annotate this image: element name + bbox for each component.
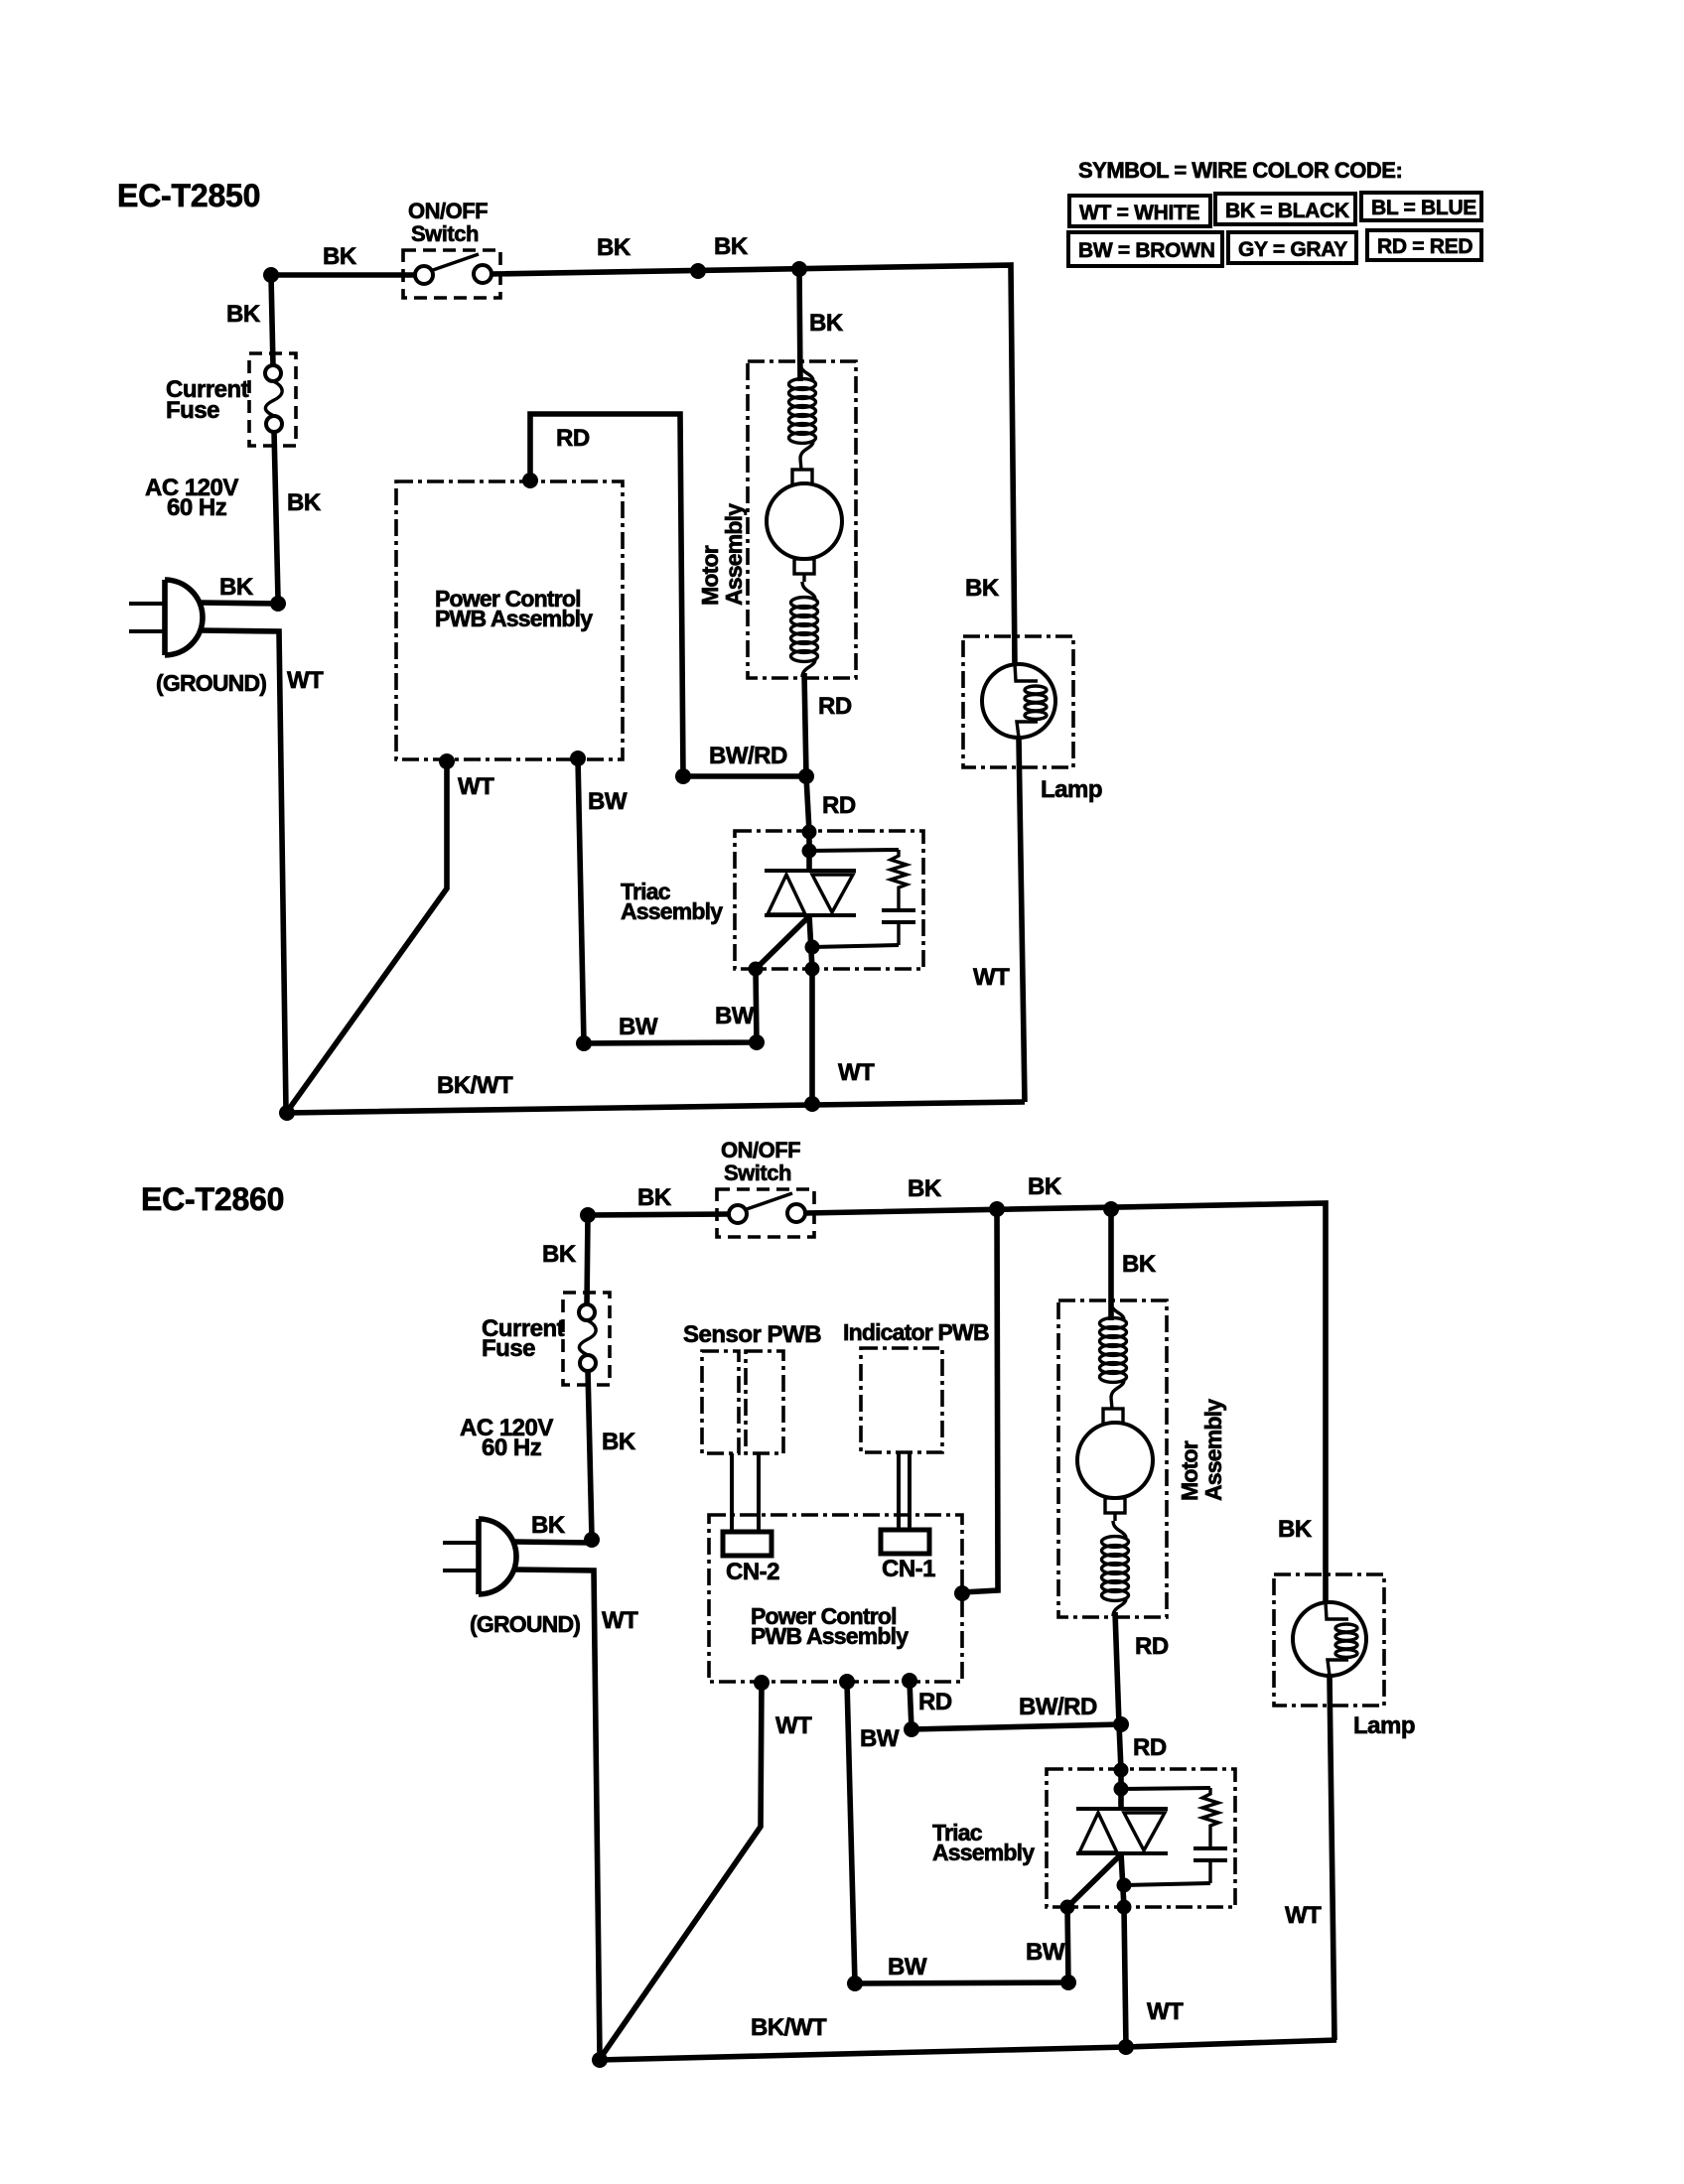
wire BK/WT: bottom rail bbox=[600, 2040, 1336, 2060]
legend box BL = BLUE bbox=[1361, 193, 1481, 220]
wire BW/RD: horizontal to motor lead bbox=[683, 773, 806, 779]
wire BK: plug to node bbox=[513, 1542, 592, 1543]
connector CN-1 bbox=[881, 1530, 929, 1554]
wire: indicator PWB leads to CN-1 bbox=[897, 1452, 901, 1531]
wire BW: PWB down bbox=[578, 758, 584, 1043]
svg-text:SYMBOL = WIRE COLOR CODE:: SYMBOL = WIRE COLOR CODE: bbox=[1078, 158, 1402, 183]
motor assembly M1 bbox=[748, 361, 856, 678]
svg-text:RD: RD bbox=[918, 1689, 952, 1715]
junction node BK step branch bbox=[989, 1201, 1005, 1217]
svg-text:BW: BW bbox=[588, 788, 628, 815]
current fuse F2 bbox=[563, 1293, 610, 1385]
svg-text:RD: RD bbox=[1133, 1734, 1167, 1761]
connector CN-2 bbox=[723, 1532, 772, 1556]
power control PWB assembly box bbox=[709, 1515, 962, 1682]
svg-text:(GROUND): (GROUND) bbox=[470, 1611, 580, 1637]
svg-text:BL = BLUE: BL = BLUE bbox=[1371, 197, 1476, 219]
svg-text:60 Hz: 60 Hz bbox=[482, 1434, 542, 1461]
svg-text:RD: RD bbox=[818, 693, 852, 720]
wire BW: PWB down bbox=[847, 1682, 855, 1983]
svg-text:BK: BK bbox=[1278, 1516, 1313, 1543]
wire BK: fuse down to plug node bbox=[588, 1370, 592, 1538]
wire BK/WT: bottom rail bbox=[287, 1102, 1025, 1113]
junction node BW gate bbox=[1060, 1975, 1076, 1990]
svg-text:BK: BK bbox=[908, 1175, 942, 1202]
wire BK: node down to fuse bbox=[271, 275, 273, 366]
svg-text:RD = RED: RD = RED bbox=[1377, 235, 1473, 258]
legend box BW = BROWN bbox=[1068, 232, 1222, 266]
wire WT: PWB to diagonal to bottom-left corner bbox=[287, 761, 447, 1112]
junction node motor branch bbox=[1103, 1201, 1119, 1217]
wire WT: plug down left side to bottom-left corner bbox=[514, 1570, 600, 2057]
junction node bottom-left corner bbox=[592, 2052, 608, 2068]
junction node BW gate bbox=[749, 1034, 765, 1050]
svg-text:BK: BK bbox=[809, 310, 844, 337]
svg-text:EC-T2860: EC-T2860 bbox=[141, 1181, 284, 1217]
junction node PWB RD bottom bbox=[902, 1673, 917, 1689]
svg-text:Indicator PWB: Indicator PWB bbox=[843, 1319, 989, 1345]
sensor PWB box right bbox=[746, 1351, 783, 1453]
junction node PWB RD top bbox=[522, 473, 538, 488]
svg-text:BK: BK bbox=[637, 1184, 672, 1211]
on/off switch S2 bbox=[717, 1189, 814, 1237]
junction node PWB WT bottom bbox=[754, 1675, 770, 1691]
svg-text:Fuse: Fuse bbox=[166, 397, 219, 424]
svg-text:BK: BK bbox=[965, 575, 1000, 602]
svg-text:BW = BROWN: BW = BROWN bbox=[1078, 239, 1215, 262]
legend box WT = WHITE bbox=[1069, 196, 1210, 226]
wire BK: rail node down into motor bbox=[1108, 1209, 1114, 1320]
wire WT: PWB to diagonal to bottom-left corner bbox=[600, 1683, 762, 2059]
svg-text:PWB Assembly: PWB Assembly bbox=[435, 606, 593, 631]
junction node BW corner left bbox=[847, 1976, 863, 1991]
svg-text:WT: WT bbox=[602, 1607, 638, 1634]
junction node bottom-left corner bbox=[279, 1105, 295, 1121]
junction node motor branch bbox=[791, 261, 807, 277]
junction node at fuse/switch bbox=[263, 267, 279, 283]
svg-text:BK: BK bbox=[323, 243, 357, 270]
wire: sensor PWB leads to CN-2 bbox=[730, 1453, 734, 1533]
wire WT: lamp to bottom rail right corner bbox=[1330, 1676, 1334, 2040]
junction node at fuse/switch bbox=[580, 1207, 596, 1223]
wire WT: plug down left side to bottom-left corner bbox=[201, 630, 286, 1110]
svg-text:WT: WT bbox=[1147, 1998, 1184, 2025]
legend box BK = BLACK bbox=[1215, 194, 1355, 224]
svg-text:ON/OFF: ON/OFF bbox=[408, 199, 488, 223]
junction node RD corner bbox=[904, 1721, 919, 1737]
power plug P1 bbox=[129, 580, 203, 655]
svg-text:BK/WT: BK/WT bbox=[437, 1072, 513, 1099]
svg-text:BK: BK bbox=[287, 489, 322, 516]
junction node BW/RD right bbox=[1113, 1716, 1129, 1732]
indicator PWB box bbox=[861, 1348, 942, 1452]
svg-text:BW/RD: BW/RD bbox=[709, 743, 787, 769]
svg-text:WT: WT bbox=[287, 667, 324, 694]
wire WT: triac down to bottom rail bbox=[809, 969, 815, 1105]
junction node BW/RD right bbox=[798, 768, 814, 784]
svg-text:PWB Assembly: PWB Assembly bbox=[751, 1623, 909, 1649]
lamp L1 bbox=[963, 636, 1073, 767]
svg-text:Assembly: Assembly bbox=[1200, 1399, 1226, 1501]
wire WT: lamp to bottom rail right corner bbox=[1019, 738, 1025, 1102]
svg-text:BW: BW bbox=[860, 1725, 900, 1752]
svg-text:BW: BW bbox=[619, 1014, 658, 1040]
svg-text:WT: WT bbox=[1285, 1902, 1322, 1929]
power control PWB assembly box bbox=[396, 481, 623, 759]
junction node WT bottom rail bbox=[804, 1096, 820, 1112]
svg-text:Assembly: Assembly bbox=[721, 503, 747, 606]
svg-text:BK/WT: BK/WT bbox=[751, 2014, 827, 2041]
legend box GY = GRAY bbox=[1228, 232, 1356, 263]
on/off switch S1 bbox=[403, 250, 500, 298]
svg-text:WT = WHITE: WT = WHITE bbox=[1079, 202, 1200, 224]
svg-text:BK: BK bbox=[1028, 1173, 1062, 1200]
svg-text:ON/OFF: ON/OFF bbox=[721, 1138, 800, 1162]
wire BK: plug to node bbox=[200, 603, 278, 604]
svg-text:CN-1: CN-1 bbox=[882, 1556, 935, 1582]
svg-text:60 Hz: 60 Hz bbox=[167, 494, 227, 521]
wire BK: switch to top-right corner, down to lamp bbox=[491, 265, 1015, 664]
svg-text:BW/RD: BW/RD bbox=[1019, 1694, 1097, 1720]
lamp L2 bbox=[1274, 1574, 1384, 1706]
junction node PWB WT bottom bbox=[439, 753, 455, 769]
svg-text:(GROUND): (GROUND) bbox=[156, 670, 266, 696]
junction node plug BK bbox=[584, 1532, 600, 1548]
wire BK: left node to switch bbox=[588, 1214, 729, 1215]
svg-text:Assembly: Assembly bbox=[932, 1840, 1035, 1865]
wire BW: horizontal to triac gate bbox=[584, 969, 757, 1043]
sensor PWB box left bbox=[702, 1351, 739, 1453]
wire BW/RD: horizontal to motor lead bbox=[912, 1724, 1121, 1729]
wire BK: switch node down into motor bbox=[799, 269, 800, 381]
wire RD: motor down through BW/RD node to triac bbox=[804, 673, 809, 832]
svg-text:BK: BK bbox=[542, 1241, 577, 1268]
junction node BW corner left bbox=[576, 1035, 592, 1051]
triac assembly Q1 bbox=[735, 825, 923, 977]
wire BK: switch to top-right corner, down to lamp bbox=[805, 1203, 1326, 1602]
wire BK: rail node down, step left to PWB right edge bbox=[962, 1209, 998, 1592]
svg-text:Lamp: Lamp bbox=[1353, 1712, 1415, 1739]
svg-text:RD: RD bbox=[822, 792, 856, 819]
svg-text:BK: BK bbox=[714, 233, 749, 260]
svg-text:EC-T2850: EC-T2850 bbox=[117, 178, 260, 213]
junction node PWB right edge bbox=[954, 1585, 970, 1601]
wire BK: fuse down to plug node bbox=[274, 431, 278, 599]
wire BW: horizontal to triac gate bbox=[855, 1907, 1068, 1983]
junction node WT bottom rail bbox=[1118, 2039, 1134, 2055]
svg-text:BK: BK bbox=[597, 234, 631, 261]
svg-text:RD: RD bbox=[1135, 1633, 1169, 1660]
junction node plug BK bbox=[270, 596, 286, 612]
svg-text:CN-2: CN-2 bbox=[726, 1559, 779, 1585]
svg-text:WT: WT bbox=[973, 964, 1010, 991]
triac assembly Q2 bbox=[1047, 1763, 1235, 1915]
svg-text:GY = GRAY: GY = GRAY bbox=[1238, 238, 1347, 261]
svg-text:BK: BK bbox=[602, 1429, 636, 1455]
wire BK: node down to fuse bbox=[587, 1215, 588, 1305]
current fuse F1 bbox=[249, 353, 296, 446]
junction node BW/RD left bbox=[675, 768, 691, 784]
junction node PWB BW bottom bbox=[570, 751, 586, 766]
svg-text:BK: BK bbox=[531, 1512, 566, 1539]
svg-text:Motor: Motor bbox=[697, 545, 723, 606]
legend box RD = RED bbox=[1367, 230, 1481, 260]
svg-text:Sensor PWB: Sensor PWB bbox=[683, 1321, 821, 1348]
wire RD: PWB down and right to BW/RD node bbox=[910, 1681, 912, 1729]
svg-text:BK: BK bbox=[219, 574, 254, 601]
wire BK: left node to switch bbox=[271, 272, 415, 278]
svg-text:RD: RD bbox=[556, 425, 590, 452]
svg-text:Switch: Switch bbox=[411, 221, 479, 246]
wire RD: PWB top loop to BW/RD node bbox=[530, 414, 683, 776]
svg-text:BW: BW bbox=[888, 1954, 927, 1980]
wire WT: triac down to bottom rail bbox=[1124, 1907, 1126, 2047]
junction node PWB BW bottom bbox=[839, 1674, 855, 1690]
svg-text:WT: WT bbox=[458, 773, 494, 800]
wire RD: motor down through BW/RD node to triac bbox=[1115, 1612, 1121, 1770]
svg-text:BK: BK bbox=[1122, 1251, 1157, 1278]
svg-text:Fuse: Fuse bbox=[482, 1335, 535, 1362]
svg-text:Assembly: Assembly bbox=[621, 898, 723, 924]
svg-text:BW: BW bbox=[715, 1003, 755, 1029]
power plug P2 bbox=[443, 1519, 516, 1594]
svg-text:Lamp: Lamp bbox=[1041, 776, 1102, 803]
svg-text:BK: BK bbox=[226, 301, 261, 328]
svg-text:Switch: Switch bbox=[724, 1160, 791, 1185]
svg-text:Motor: Motor bbox=[1177, 1440, 1202, 1501]
svg-text:BK = BLACK: BK = BLACK bbox=[1225, 200, 1349, 222]
svg-text:WT: WT bbox=[775, 1712, 812, 1739]
motor assembly M2 bbox=[1058, 1300, 1167, 1617]
svg-text:WT: WT bbox=[838, 1059, 875, 1086]
junction node on top rail bbox=[690, 263, 706, 279]
svg-text:BW: BW bbox=[1026, 1939, 1065, 1966]
